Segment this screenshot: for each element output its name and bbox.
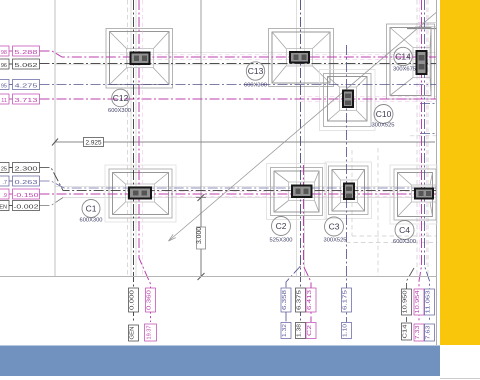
- svg-text:96: 96: [1, 63, 7, 69]
- svg-text:300X525: 300X525: [372, 123, 395, 129]
- svg-text:-0.002: -0.002: [14, 204, 39, 210]
- svg-text:C2: C2: [307, 325, 313, 336]
- svg-text:10.954: 10.954: [415, 291, 421, 314]
- svg-text:3.713: 3.713: [15, 98, 38, 104]
- svg-text:0.263: 0.263: [15, 180, 38, 186]
- svg-text:95: 95: [1, 83, 7, 89]
- svg-text:600X300: 600X300: [244, 83, 267, 89]
- svg-text:525X300: 525X300: [270, 238, 293, 244]
- svg-text:C1: C1: [86, 204, 97, 214]
- svg-text:25: 25: [1, 166, 7, 172]
- svg-text:C14: C14: [395, 52, 411, 62]
- svg-text:6.413: 6.413: [307, 290, 313, 310]
- svg-text:EN: EN: [0, 204, 7, 210]
- svg-text:C12: C12: [113, 93, 129, 103]
- svg-text:GEN: GEN: [130, 327, 136, 340]
- svg-text:7.33: 7.33: [415, 326, 421, 340]
- svg-text:1.10: 1.10: [343, 324, 349, 337]
- svg-text:0.360: 0.360: [147, 290, 153, 310]
- svg-text:C3: C3: [329, 222, 340, 232]
- svg-text:6.175: 6.175: [343, 290, 349, 310]
- svg-text:11: 11: [1, 98, 7, 104]
- svg-text:600X300: 600X300: [108, 108, 131, 114]
- svg-text:5.288: 5.288: [15, 50, 38, 56]
- svg-text:6.375: 6.375: [297, 290, 303, 310]
- svg-text:C13: C13: [248, 66, 264, 76]
- svg-text:5.062: 5.062: [15, 63, 38, 69]
- svg-text:-0.150: -0.150: [14, 193, 39, 199]
- svg-text:C4: C4: [399, 225, 410, 235]
- svg-text:0.000: 0.000: [130, 290, 136, 310]
- svg-text:300X525: 300X525: [324, 238, 347, 244]
- svg-text:1.38: 1.38: [297, 324, 303, 337]
- svg-text:.9: .9: [2, 193, 7, 199]
- svg-text:6.358: 6.358: [282, 290, 288, 310]
- svg-text:C14: C14: [403, 325, 409, 339]
- svg-text:11.063: 11.063: [426, 291, 432, 314]
- svg-text:.7: .7: [2, 180, 7, 186]
- svg-text:600X300: 600X300: [393, 239, 416, 245]
- svg-text:98: 98: [1, 50, 7, 56]
- svg-text:3.000: 3.000: [196, 226, 203, 244]
- svg-text:C2: C2: [276, 221, 287, 231]
- svg-text:300X675: 300X675: [393, 67, 416, 73]
- svg-text:19.37: 19.37: [147, 326, 153, 340]
- svg-text:4.275: 4.275: [15, 83, 38, 89]
- svg-text:2.300: 2.300: [15, 166, 38, 172]
- svg-text:C10: C10: [376, 109, 392, 119]
- svg-text:10.950: 10.950: [403, 291, 409, 314]
- svg-text:600X300: 600X300: [80, 218, 103, 224]
- svg-text:1.32: 1.32: [282, 324, 288, 337]
- svg-text:7.63: 7.63: [426, 326, 432, 340]
- svg-text:2.925: 2.925: [86, 140, 103, 147]
